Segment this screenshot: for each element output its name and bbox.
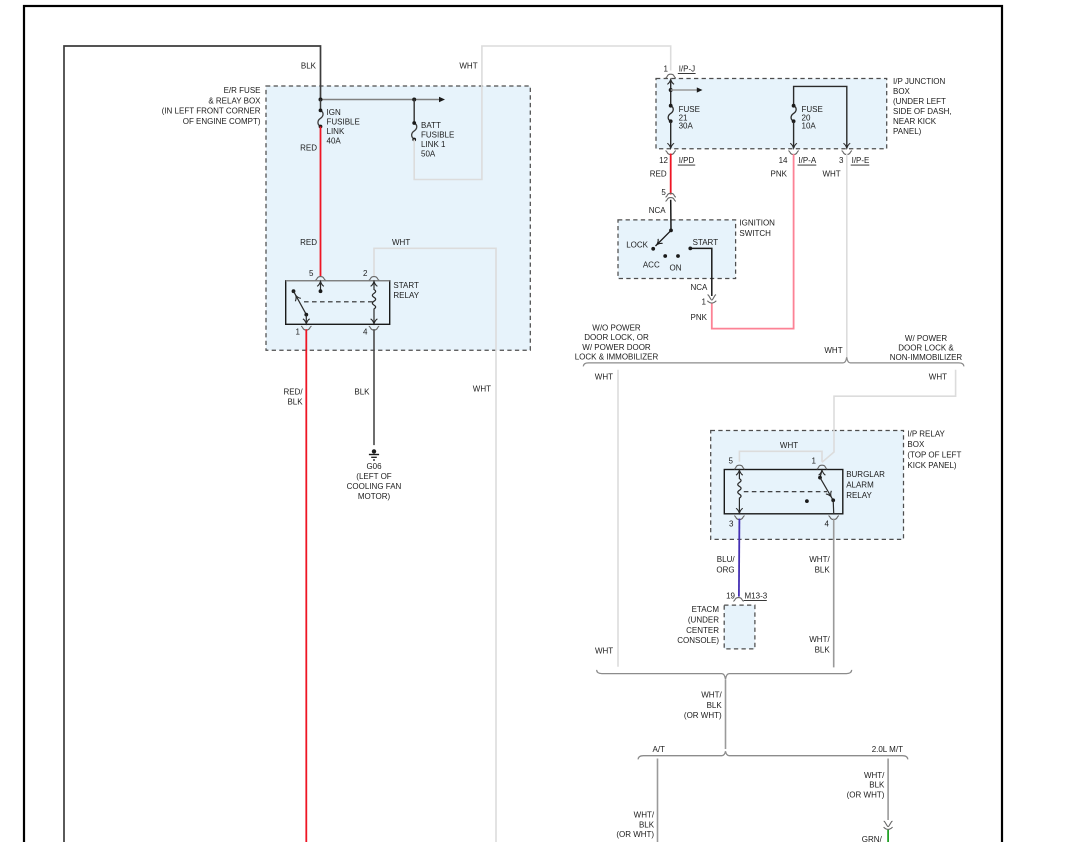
svg-text:LOCK & IMMOBILIZER: LOCK & IMMOBILIZER <box>575 353 659 362</box>
label RED <box>300 144 317 153</box>
svg-text:DOOR LOCK &: DOOR LOCK & <box>898 344 954 353</box>
svg-text:IGN: IGN <box>327 108 341 117</box>
label WHT/BLK (OR WHT) <box>616 811 655 839</box>
svg-text:FUSE: FUSE <box>802 105 823 114</box>
svg-text:FUSE: FUSE <box>679 105 700 114</box>
burglar relay pin 5 arc <box>734 465 744 469</box>
label BLK <box>354 387 370 396</box>
svg-text:RED/: RED/ <box>283 387 303 396</box>
svg-text:W/ POWER: W/ POWER <box>905 334 947 343</box>
svg-text:(LEFT OF: (LEFT OF <box>356 472 392 481</box>
burglar relay internals <box>736 470 835 513</box>
wire A/T branch down <box>657 759 659 842</box>
ignition switch box (dashed) <box>618 220 736 279</box>
pin label 19 <box>726 592 735 601</box>
svg-text:NEAR KICK: NEAR KICK <box>893 117 937 126</box>
svg-text:(TOP OF LEFT: (TOP OF LEFT <box>907 450 961 459</box>
svg-text:(OR WHT): (OR WHT) <box>684 711 722 720</box>
wire BLK battery feed loop <box>64 46 321 842</box>
label IGN FUSIBLE LINK 40A <box>327 108 360 146</box>
label WHT/BLK <box>809 635 830 654</box>
label RED <box>300 238 317 247</box>
ETACM box (dashed) <box>724 605 755 649</box>
fusible link IGN 40A <box>318 100 323 129</box>
net label M13-3 <box>744 592 768 601</box>
connector pin 3 arc <box>842 151 852 155</box>
svg-text:NCA: NCA <box>649 206 667 215</box>
label GRN/ <box>862 835 883 842</box>
svg-text:3: 3 <box>729 520 734 529</box>
svg-text:BLK: BLK <box>301 62 317 71</box>
svg-text:5: 5 <box>309 269 314 278</box>
fuse F20 10A <box>791 104 796 123</box>
svg-text:BLK: BLK <box>869 781 885 790</box>
svg-text:BATT: BATT <box>421 121 441 130</box>
wire BLK from pin 4 to ground <box>373 329 375 445</box>
svg-text:BLK: BLK <box>707 701 723 710</box>
wire bus arrow in I/P box <box>671 87 703 92</box>
svg-text:40A: 40A <box>327 137 342 146</box>
svg-text:SWITCH: SWITCH <box>739 229 771 238</box>
svg-text:WHT: WHT <box>595 373 613 382</box>
svg-text:1: 1 <box>664 65 669 74</box>
svg-text:FUSIBLE: FUSIBLE <box>327 118 360 127</box>
svg-text:PNK: PNK <box>771 170 788 179</box>
label WHT <box>595 373 613 382</box>
net label I/PD <box>678 156 695 165</box>
svg-text:RED: RED <box>300 238 317 247</box>
svg-text:W/ POWER DOOR: W/ POWER DOOR <box>582 343 651 352</box>
svg-text:E/R FUSE: E/R FUSE <box>224 86 261 95</box>
label ON <box>670 263 682 272</box>
svg-text:RED: RED <box>650 170 667 179</box>
wire fuse20 branch <box>794 86 851 148</box>
svg-text:OF ENGINE COMPT): OF ENGINE COMPT) <box>183 117 261 126</box>
wire fuse21 to pin 12 <box>667 121 674 148</box>
svg-text:START: START <box>693 238 719 247</box>
svg-text:LOCK: LOCK <box>626 241 648 250</box>
svg-text:WHT/: WHT/ <box>809 635 830 644</box>
splice brace collector <box>597 670 852 679</box>
I/P relay box (dashed) <box>711 431 904 540</box>
svg-text:CENTER: CENTER <box>686 626 719 635</box>
label WHT <box>822 170 840 179</box>
pin label 4 <box>363 328 368 337</box>
svg-text:WHT: WHT <box>392 238 410 247</box>
svg-text:IGNITION: IGNITION <box>739 219 775 228</box>
svg-text:2.0L M/T: 2.0L M/T <box>872 745 903 754</box>
svg-text:WHT/: WHT/ <box>701 691 722 700</box>
svg-text:BLK: BLK <box>815 565 831 574</box>
svg-text:BLK: BLK <box>815 645 831 654</box>
svg-text:WHT: WHT <box>929 373 947 382</box>
label WHT <box>459 62 477 71</box>
svg-text:I/P-J: I/P-J <box>679 65 695 74</box>
wire WHT/BLK pin4 down <box>833 519 835 668</box>
wire 2.0L M/T branch down <box>887 759 889 821</box>
label RED/BLK <box>283 387 303 406</box>
pin label 1 <box>296 328 301 337</box>
svg-text:30A: 30A <box>679 121 694 130</box>
label BURGLAR ALARM RELAY <box>846 470 885 500</box>
label ETACM <box>677 605 719 645</box>
svg-text:WHT: WHT <box>595 647 613 656</box>
label NCA <box>691 283 709 292</box>
wire WHT jumper pin5-pin1 <box>739 451 822 462</box>
svg-text:BLK: BLK <box>354 387 370 396</box>
label START <box>693 238 719 247</box>
wire WHT left branch down <box>617 370 619 667</box>
svg-text:LINK: LINK <box>327 127 345 136</box>
pin label 3 <box>729 520 734 529</box>
svg-text:WHT/: WHT/ <box>864 771 885 780</box>
label RED <box>650 170 667 179</box>
svg-text:LINK 1: LINK 1 <box>421 140 446 149</box>
wire in I/P box pin1 to bus <box>667 79 674 105</box>
label WHT/BLK (OR WHT) <box>847 771 886 800</box>
svg-text:I/P-E: I/P-E <box>852 156 870 165</box>
svg-text:START: START <box>393 281 419 290</box>
svg-text:GRN/: GRN/ <box>862 835 883 842</box>
label PNK <box>771 170 788 179</box>
burglar relay pin 1 arc <box>817 465 827 469</box>
svg-text:3: 3 <box>839 156 844 165</box>
svg-text:WHT: WHT <box>824 346 842 355</box>
svg-text:WHT: WHT <box>459 62 477 71</box>
label W/O POWER DOOR LOCK variant <box>575 324 659 362</box>
splice brace top distribution <box>583 357 964 366</box>
I/P junction box (dashed) <box>656 79 887 149</box>
svg-text:PNK: PNK <box>691 313 708 322</box>
svg-text:(UNDER: (UNDER <box>688 615 719 624</box>
wire fuse20 to pin 14 <box>790 121 797 148</box>
label 2.0L M/T <box>872 745 903 754</box>
wire RED pin12 to connector 5 <box>670 154 672 195</box>
wire START contact to pin 1 <box>690 248 712 296</box>
splice brace A/T / M/T distribution <box>638 751 908 759</box>
svg-text:14: 14 <box>779 156 788 165</box>
svg-text:10A: 10A <box>802 121 817 130</box>
svg-text:BOX: BOX <box>893 87 911 96</box>
pin label 5 <box>309 269 314 278</box>
wire RED/BLK from pin 1 down <box>305 329 307 842</box>
svg-text:ACC: ACC <box>643 261 660 270</box>
svg-text:(IN LEFT FRONT CORNER: (IN LEFT FRONT CORNER <box>162 107 261 116</box>
svg-text:2: 2 <box>363 269 368 278</box>
fusible link BATT 50A <box>412 100 417 142</box>
svg-text:COOLING FAN: COOLING FAN <box>347 482 402 491</box>
burglar relay pin 4 arc <box>829 516 839 520</box>
svg-text:1: 1 <box>296 328 301 337</box>
ignition switch contacts <box>651 247 692 258</box>
label I/P JUNCTION BOX <box>893 77 952 136</box>
wire WHT pin3 down to brace <box>846 154 848 357</box>
label LOCK <box>626 241 648 250</box>
svg-text:MOTOR): MOTOR) <box>358 492 391 501</box>
svg-text:WHT: WHT <box>780 441 798 450</box>
svg-text:DOOR LOCK, OR: DOOR LOCK, OR <box>584 333 649 342</box>
svg-text:I/P-A: I/P-A <box>798 156 816 165</box>
svg-text:I/P RELAY: I/P RELAY <box>907 430 945 439</box>
label A/T <box>653 745 666 754</box>
label WHT/BLK <box>809 555 830 575</box>
wire BLU/ORG pin3 to ETACM <box>738 519 741 597</box>
start relay internals <box>292 281 378 323</box>
svg-text:BOX: BOX <box>907 440 925 449</box>
svg-text:W/O POWER: W/O POWER <box>592 324 641 333</box>
connector pin 14 arc <box>788 151 798 155</box>
start relay pin 4 arc <box>369 326 379 330</box>
svg-text:12: 12 <box>659 156 668 165</box>
label IGNITION SWITCH <box>739 219 775 238</box>
pin label 1 <box>812 456 817 465</box>
wire PNK <box>712 154 794 329</box>
label START RELAY <box>393 281 419 300</box>
net label I/P-J <box>678 65 696 74</box>
net label I/P-A <box>798 156 817 165</box>
svg-text:FUSIBLE: FUSIBLE <box>421 131 454 140</box>
svg-text:WHT/: WHT/ <box>634 811 655 820</box>
label WHT <box>595 647 613 656</box>
svg-text:5: 5 <box>661 188 666 197</box>
svg-text:50A: 50A <box>421 150 436 159</box>
svg-text:M13-3: M13-3 <box>745 592 768 601</box>
pin label 1 <box>664 65 669 74</box>
pin label 3 <box>839 156 844 165</box>
svg-text:4: 4 <box>363 328 368 337</box>
svg-text:& RELAY BOX: & RELAY BOX <box>208 96 261 105</box>
label WHT <box>824 346 842 355</box>
label WHT <box>473 384 491 393</box>
label FUSE 21 30A <box>679 105 700 130</box>
label ACC <box>643 261 660 270</box>
svg-text:BLK: BLK <box>287 397 303 406</box>
label WHT <box>392 238 410 247</box>
svg-text:NON-IMMOBILIZER: NON-IMMOBILIZER <box>890 353 963 362</box>
svg-text:1: 1 <box>812 456 817 465</box>
burglar alarm relay K2 body <box>724 470 843 514</box>
svg-text:ALARM: ALARM <box>846 481 874 490</box>
label BATT FUSIBLE LINK 1 50A <box>421 121 454 159</box>
wire WHT right branch to relay box <box>822 370 956 463</box>
pin label 1 <box>702 298 707 307</box>
svg-text:ETACM: ETACM <box>692 605 720 614</box>
connector C1 inline male-female <box>707 295 716 303</box>
svg-text:RED: RED <box>300 144 317 153</box>
fuse F21 30A <box>668 104 673 123</box>
label W/ POWER DOOR LOCK variant <box>890 334 963 362</box>
svg-text:CONSOLE): CONSOLE) <box>677 636 719 645</box>
label FUSE 20 10A <box>802 105 823 130</box>
svg-text:5: 5 <box>729 456 734 465</box>
wire BLK connector to ignition switch <box>655 200 673 247</box>
pin label 12 <box>659 156 668 165</box>
wire GRN <box>887 830 889 842</box>
label PNK <box>691 313 708 322</box>
connector C5 inline arcs <box>666 193 676 201</box>
start relay U1 body <box>286 281 390 325</box>
svg-text:WHT/: WHT/ <box>809 555 830 564</box>
wire bus arrow in E/R box <box>319 97 446 102</box>
connector M13-3 pin 19 arc <box>733 598 743 602</box>
svg-text:NCA: NCA <box>691 283 709 292</box>
svg-text:19: 19 <box>726 592 735 601</box>
svg-text:WHT: WHT <box>473 384 491 393</box>
svg-text:SIDE OF DASH,: SIDE OF DASH, <box>893 107 952 116</box>
net label I/P-E <box>851 156 870 165</box>
label BLK <box>301 62 317 71</box>
burglar relay pin 3 arc <box>734 516 744 520</box>
connector I/P-J pin 1 arc <box>666 74 676 78</box>
svg-text:I/P JUNCTION: I/P JUNCTION <box>893 77 946 86</box>
wire WHT from start relay pin 2 down <box>374 248 496 842</box>
connector pin 12 arc <box>666 151 676 155</box>
E/R fuse and relay box (dashed) <box>266 86 530 350</box>
label WHT <box>780 441 798 450</box>
svg-text:KICK PANEL): KICK PANEL) <box>907 461 957 470</box>
wire RED to start relay pin 5 <box>320 127 322 277</box>
svg-text:(OR WHT): (OR WHT) <box>616 830 654 839</box>
start relay pin 5 arc <box>315 277 325 281</box>
pin label 5 <box>729 456 734 465</box>
svg-text:4: 4 <box>825 520 830 529</box>
svg-text:BURGLAR: BURGLAR <box>846 470 885 479</box>
svg-text:G06: G06 <box>366 462 382 471</box>
start relay pin 2 arc <box>369 277 379 281</box>
connector inline male-female to GRN <box>884 821 893 829</box>
svg-text:I/PD: I/PD <box>679 156 695 165</box>
svg-text:RELAY: RELAY <box>393 291 419 300</box>
label WHT/BLK (OR WHT) <box>684 691 723 721</box>
start relay pin 1 arc <box>301 326 311 330</box>
wire WHT from BATT link to I/P-J pin 1 <box>414 46 671 180</box>
label WHT <box>929 373 947 382</box>
wire WHT/BLK collector output <box>725 680 727 749</box>
svg-text:ORG: ORG <box>716 565 734 574</box>
svg-text:A/T: A/T <box>653 745 666 754</box>
label I/P RELAY BOX <box>907 430 961 470</box>
label E/R FUSE & RELAY BOX <box>162 86 261 126</box>
svg-text:BLK: BLK <box>639 820 655 829</box>
svg-text:1: 1 <box>702 298 707 307</box>
svg-text:BLU/: BLU/ <box>717 555 736 564</box>
label NCA <box>649 206 667 215</box>
pin label 2 <box>363 269 368 278</box>
svg-text:PANEL): PANEL) <box>893 127 922 136</box>
pin label 5 <box>661 188 666 197</box>
pin label 14 <box>779 156 788 165</box>
svg-text:(OR WHT): (OR WHT) <box>847 790 885 799</box>
svg-text:(UNDER LEFT: (UNDER LEFT <box>893 97 946 106</box>
svg-text:ON: ON <box>670 263 682 272</box>
pin label 4 <box>825 520 830 529</box>
ground G06 <box>369 449 379 460</box>
label G06 <box>347 462 402 501</box>
svg-text:RELAY: RELAY <box>846 491 872 500</box>
label BLU/ORG <box>716 555 735 575</box>
svg-text:WHT: WHT <box>822 170 840 179</box>
